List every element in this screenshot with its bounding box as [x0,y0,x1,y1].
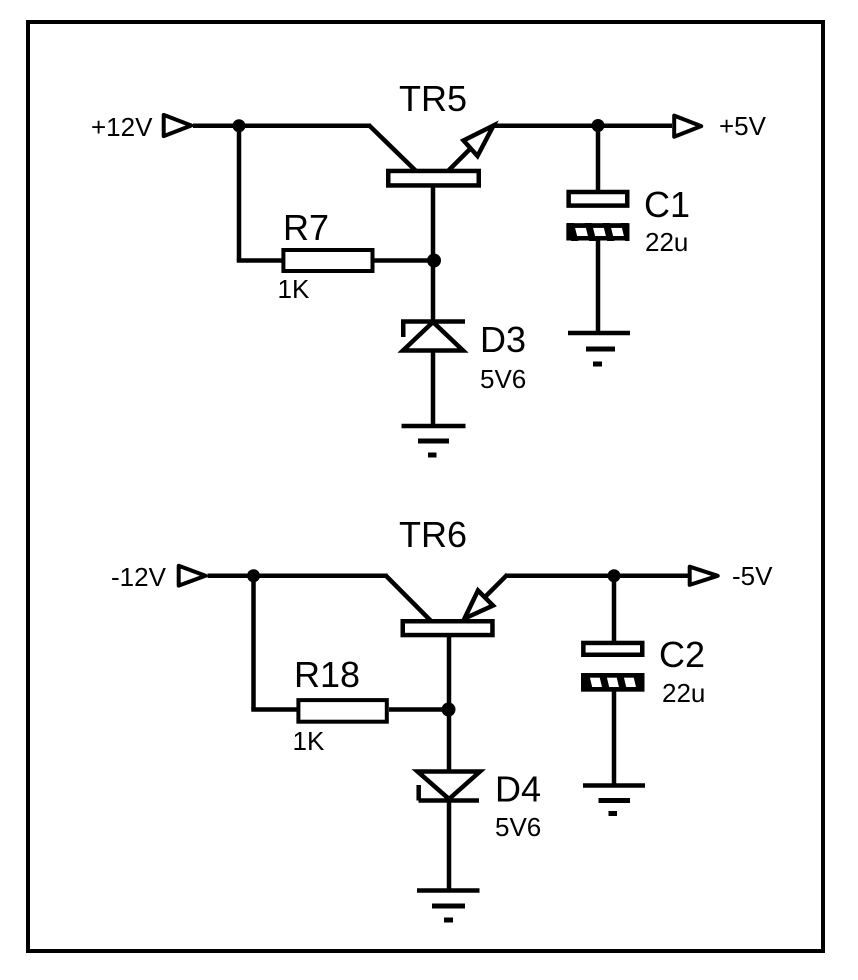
wire D4 to ground [447,801,452,891]
resistor R18 body [298,700,386,722]
svg-text:TR6: TR6 [399,514,467,555]
resistor R7 body [283,250,372,271]
wire emitter to output [507,574,689,579]
svg-text:22u: 22u [645,227,688,257]
wire node A down [237,126,242,261]
capacitor C1 top plate [569,192,628,206]
svg-text:+12V: +12V [91,112,153,142]
svg-text:R18: R18 [294,654,360,695]
zener D4 bend [416,785,421,801]
wire R18 right to node F [389,707,449,712]
ground D3 [402,426,466,455]
wire to R18 left [251,707,298,712]
wire -12V rail to collector [208,574,388,579]
svg-text:5V6: 5V6 [495,812,541,842]
ground C2 [583,786,645,814]
svg-text:C1: C1 [644,184,690,225]
wire R7 right to node B [375,258,435,263]
svg-text:+5V: +5V [719,111,767,141]
wire emitter to output [492,124,672,129]
capacitor C2 top plate [583,643,642,655]
output port +5V triangle [674,116,701,137]
svg-text:-12V: -12V [111,562,167,592]
svg-text:22u: 22u [662,678,705,708]
svg-text:C2: C2 [659,634,705,675]
transistor TR6 emitter arrow [465,591,494,619]
node B junction dot [427,254,441,268]
transistor TR5 emitter arrow [464,126,494,157]
input port -12V triangle [179,566,206,586]
zener D3 triangle [403,322,463,351]
wire emitter tail TR5 [449,150,470,171]
wire node C down to C1 [596,126,601,190]
ground D4 [417,891,480,921]
wire TR5 base down to D3 [431,186,436,322]
wire C2 to ground [612,691,617,786]
zener D4 triangle [418,772,481,800]
node D junction dot [247,569,260,582]
node C junction dot [592,119,605,132]
transistor TR5 base bar [388,171,479,186]
node A junction dot [233,119,246,132]
wire +12V rail to collector [193,124,371,129]
svg-text:1K: 1K [293,726,325,756]
zener D3 bend [401,322,406,338]
svg-text:R7: R7 [283,207,329,248]
svg-text:1K: 1K [278,274,310,304]
svg-text:D3: D3 [480,319,526,360]
node E junction dot [608,569,621,582]
svg-text:TR5: TR5 [399,78,467,119]
svg-text:D4: D4 [495,769,541,810]
capacitor C2 bottom plate hatched [583,672,642,693]
wire collector diagonal TR5 [370,126,417,171]
output port -5V triangle [690,567,718,585]
wire node D down [251,576,256,710]
zener D3 cathode bar [401,319,465,324]
zener D4 cathode bar [419,798,480,803]
wire D3 to ground [431,351,436,427]
svg-text:5V6: 5V6 [480,364,526,394]
ground C1 [568,333,630,364]
transistor TR6 base bar [403,621,493,635]
input port +12V triangle [164,115,192,136]
svg-text:-5V: -5V [732,561,773,591]
capacitor C1 bottom plate hatched [569,222,629,242]
wire node E down to C2 [612,576,617,641]
wire C1 to ground [596,241,601,334]
wire emitter tail TR6 [484,575,508,599]
node F junction dot [442,703,456,717]
wire collector diagonal TR6 [386,576,431,621]
wire TR6 base down to D4 [447,636,452,772]
wire to R7 left [237,258,283,263]
